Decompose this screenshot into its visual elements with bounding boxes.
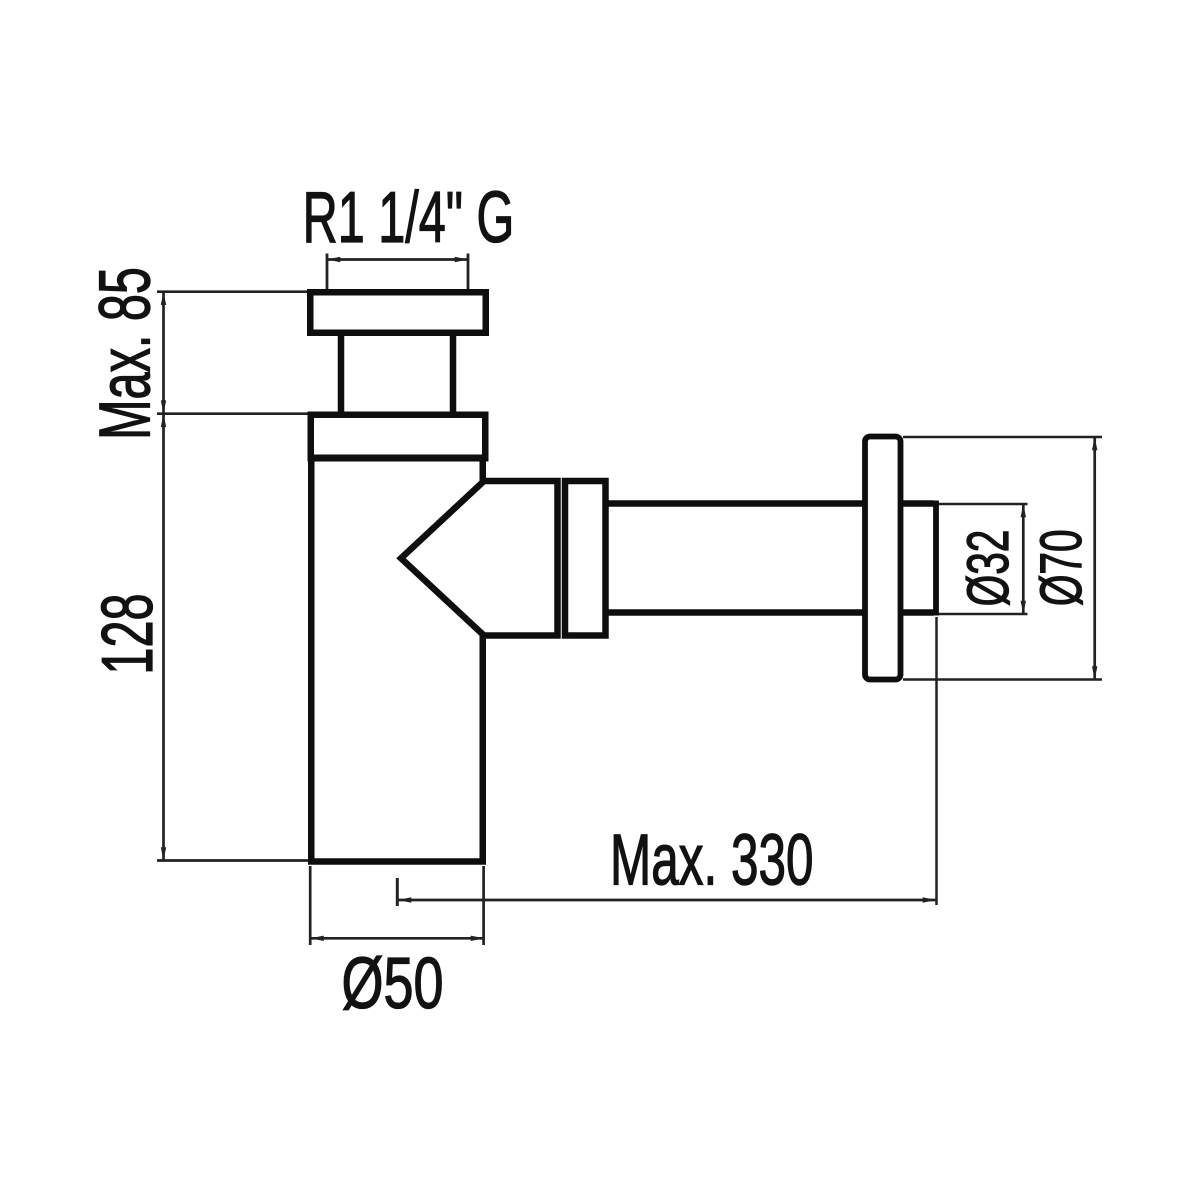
wire: Ø50 right extension	[482, 866, 485, 945]
pipe bottom line	[606, 609, 934, 616]
pipe end vertical line	[933, 501, 939, 616]
upper body flange	[311, 415, 486, 459]
node R1 dimension: right tick	[467, 254, 470, 290]
node Ø32 dimension line	[1021, 504, 1026, 614]
body of trap (cup)	[311, 458, 483, 862]
wire: extension line between Max.85 and 128	[157, 412, 309, 415]
wall flange	[865, 437, 901, 680]
svg-text:Ø50: Ø50	[341, 944, 443, 1024]
wire: Ø32 bottom extension	[938, 613, 1028, 616]
node Max.330 dimension line	[397, 897, 936, 902]
wire: extension line from pipe end down	[935, 617, 938, 905]
node Ø70 dimension line	[1092, 437, 1097, 680]
upper body flange thick bottom line	[308, 455, 488, 462]
node Max.85 dimension line	[161, 292, 166, 414]
node R1 dimension line	[327, 257, 468, 262]
wire: Ø70 bottom extension	[903, 678, 1102, 681]
svg-text:128: 128	[88, 593, 169, 674]
neck right line	[450, 332, 457, 415]
wire: extension line top of Max.85	[157, 290, 309, 293]
svg-text:Ø70: Ø70	[1029, 529, 1094, 606]
node R1 dimension: left tick	[326, 254, 329, 290]
svg-text:Ø32: Ø32	[956, 530, 1021, 607]
node 128 dimension line	[161, 414, 166, 861]
wire: Ø32 top extension	[938, 503, 1028, 506]
svg-text:Max. 85: Max. 85	[85, 267, 166, 440]
node Ø50 dimension line	[310, 936, 484, 941]
wire: Ø70 top extension	[903, 436, 1102, 439]
outlet cone	[401, 481, 558, 636]
node Max.330 left tick	[396, 878, 399, 906]
top flange	[310, 292, 486, 333]
compression nut	[565, 481, 606, 636]
neck left line	[338, 332, 345, 415]
svg-text:Max. 330: Max. 330	[610, 820, 813, 900]
wire: extension line at body bottom left	[157, 859, 309, 862]
pipe top line	[606, 500, 934, 507]
wire: Ø50 left extension	[309, 866, 312, 945]
svg-text:R1 1/4" G: R1 1/4" G	[303, 178, 515, 259]
